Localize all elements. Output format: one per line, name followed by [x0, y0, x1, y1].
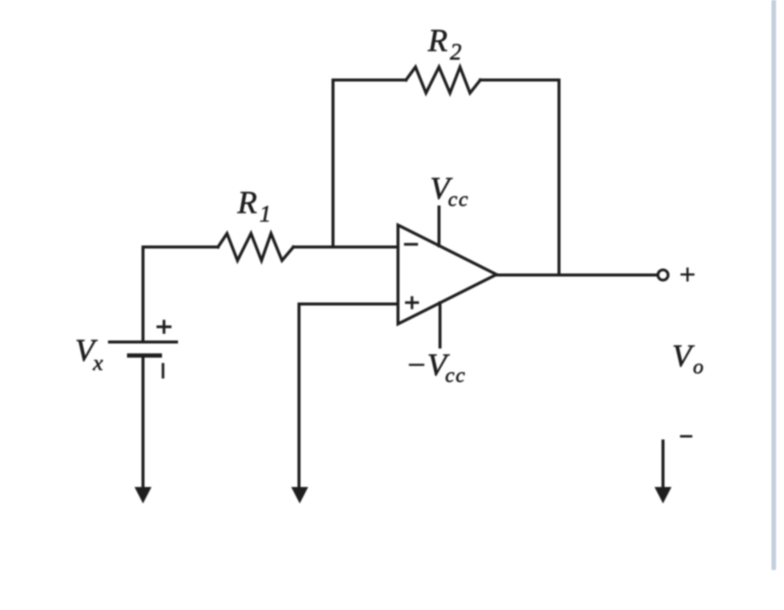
ground arrow right: [655, 487, 672, 504]
ground arrow left: [135, 487, 152, 504]
svg-text:Vcc: Vcc: [430, 170, 469, 211]
svg-text:R2: R2: [427, 22, 462, 65]
wire output ground stub: [662, 441, 665, 492]
node Vo output terminal: [658, 270, 668, 280]
svg-text:−Vcc: −Vcc: [406, 347, 467, 388]
wire top feedback horizontal right: [480, 79, 559, 82]
battery source Vx bottom plate: [127, 353, 162, 357]
battery plus sign: [157, 320, 172, 334]
wire output: [497, 274, 659, 277]
wire input right segment to op-amp: [293, 246, 398, 249]
resistor R1: [218, 234, 293, 261]
wire -Vcc stub: [439, 303, 442, 347]
battery minus tick: [162, 363, 165, 379]
output plus polarity sign: [681, 268, 695, 282]
wire top feedback horizontal left: [333, 79, 406, 82]
op-amp noninverting input plus symbol: [405, 296, 419, 309]
wire noninverting input: [299, 304, 398, 492]
op-amp inverting input minus symbol: [404, 243, 418, 246]
op-amp U1: [398, 225, 497, 324]
wire feedback left vertical: [332, 80, 335, 247]
wire source bottom vertical: [142, 356, 145, 492]
output minus polarity sign: [680, 435, 692, 437]
resistor R2: [406, 67, 480, 93]
svg-text:Vo: Vo: [672, 338, 704, 379]
ground arrow middle: [291, 487, 308, 504]
page right border: [772, 0, 777, 570]
wire source top vertical: [142, 247, 145, 341]
wire feedback right vertical: [558, 80, 561, 275]
wire input left segment: [143, 246, 218, 249]
wire Vcc stub: [438, 207, 441, 246]
svg-text:R1: R1: [237, 184, 272, 227]
battery source Vx top plate: [108, 341, 178, 344]
svg-text:Vx: Vx: [75, 332, 103, 375]
